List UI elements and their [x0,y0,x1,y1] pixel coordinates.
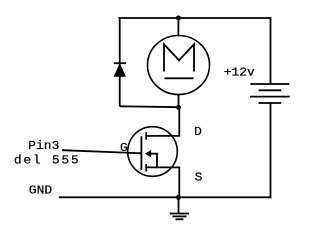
wire: motor bottom stub [178,94,180,107]
svg-text:GND: GND [29,184,52,197]
wire: battery top lead [270,17,272,84]
svg-text:Pin3: Pin3 [28,140,59,153]
svg-text:+12v: +12v [224,65,256,80]
node: ground junction dot [176,195,181,200]
transistor Q1 (N-MOSFET) [128,127,178,177]
battery B1 (+12V) [250,84,290,103]
node: top junction dot [176,16,181,21]
wire: top rail [119,17,271,19]
wire: diode branch left vertical [119,17,121,106]
wire: motor top stub [177,18,179,36]
wire: diode loop bottom [120,105,179,108]
svg-text:G: G [120,141,128,154]
node: motor bottom junction dot [176,105,181,110]
wire: battery bottom lead [270,103,272,197]
svg-text:S: S [195,171,203,184]
ground symbol [170,197,189,219]
wire: gate lead from 555 pin3 [62,150,141,153]
wire: drain lead (vertical + horizontal into Q1) [146,107,179,136]
svg-text:del 555: del 555 [14,154,80,167]
wire: source lead [146,167,179,197]
diode D1 [114,63,126,76]
wire: ground rail [59,196,272,198]
motor M1 [148,36,210,95]
svg-text:D: D [194,126,202,139]
